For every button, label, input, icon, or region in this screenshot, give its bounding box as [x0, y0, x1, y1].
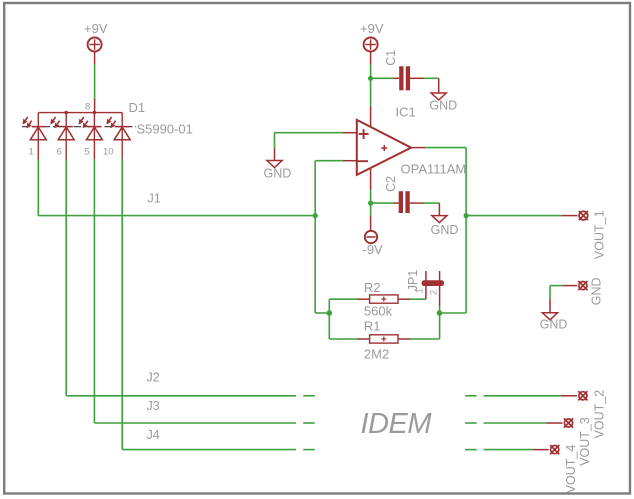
svg-text:10: 10 — [103, 147, 114, 158]
svg-text:C2: C2 — [384, 176, 398, 192]
svg-text:VOUT_1: VOUT_1 — [592, 210, 606, 259]
svg-text:5: 5 — [85, 147, 90, 158]
svg-text:J4: J4 — [147, 428, 160, 442]
svg-text:+9V: +9V — [84, 21, 108, 36]
svg-text:R1: R1 — [364, 318, 381, 333]
svg-text:GND: GND — [431, 223, 459, 237]
svg-text:GND: GND — [540, 318, 568, 332]
svg-text:8: 8 — [85, 102, 90, 113]
svg-text:OPA111AM: OPA111AM — [401, 162, 467, 177]
svg-text:D1: D1 — [129, 100, 146, 115]
svg-text:1: 1 — [414, 288, 425, 293]
svg-text:GND: GND — [429, 98, 457, 112]
svg-text:VOUT_3: VOUT_3 — [578, 417, 592, 466]
svg-text:+9V: +9V — [360, 21, 384, 36]
svg-text:J1: J1 — [148, 192, 161, 206]
svg-text:C1: C1 — [384, 50, 398, 66]
svg-text:GND: GND — [590, 277, 604, 305]
svg-text:IDEM: IDEM — [361, 408, 433, 440]
svg-text:R2: R2 — [364, 280, 381, 295]
svg-text:2: 2 — [429, 290, 440, 295]
svg-text:2M2: 2M2 — [364, 347, 389, 362]
svg-text:IC1: IC1 — [396, 105, 416, 120]
svg-text:JP1: JP1 — [406, 270, 420, 292]
svg-text:VOUT_4: VOUT_4 — [564, 445, 578, 494]
svg-text:S5990-01: S5990-01 — [137, 122, 193, 137]
svg-text:-9V: -9V — [363, 242, 384, 257]
svg-text:1: 1 — [29, 147, 34, 158]
svg-text:6: 6 — [57, 147, 62, 158]
svg-text:GND: GND — [264, 167, 292, 181]
svg-text:560k: 560k — [364, 304, 393, 319]
svg-text:VOUT_2: VOUT_2 — [593, 390, 607, 439]
svg-text:J2: J2 — [147, 371, 160, 385]
svg-text:J3: J3 — [147, 399, 160, 413]
